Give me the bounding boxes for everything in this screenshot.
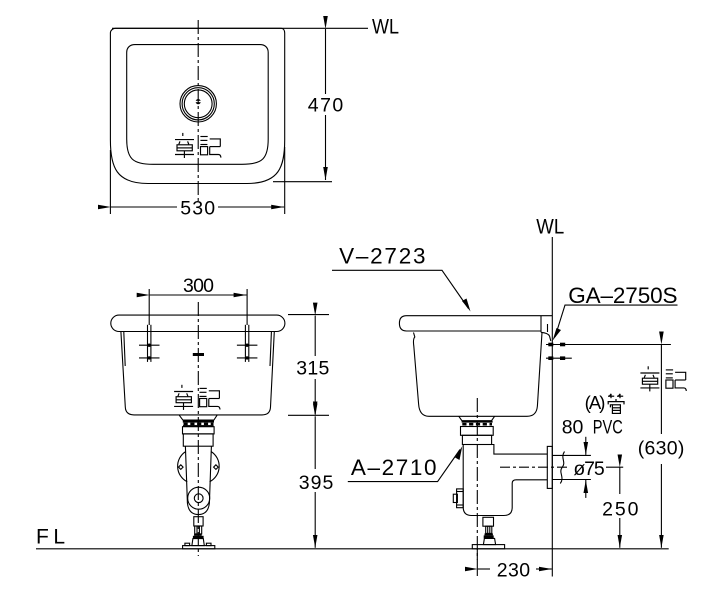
wall fastener top [548, 343, 565, 347]
svg-text:ø75: ø75 [573, 458, 604, 480]
svg-text:V–2723: V–2723 [339, 243, 425, 268]
trap wall-flange arcs (front) [178, 452, 188, 482]
drain circles (plan) [180, 86, 216, 122]
svg-text:470: 470 [308, 95, 344, 117]
front trap body [185, 446, 211, 514]
cleanout circle (front) [188, 487, 210, 509]
svg-text:A–2710: A–2710 [351, 455, 437, 480]
side strainer funnel [459, 416, 495, 420]
dimension 630 [660, 345, 662, 435]
basin inner wall lines (front) [124, 332, 125, 366]
pipe break squiggle [560, 452, 564, 484]
svg-text:250: 250 [602, 498, 639, 520]
wall line WL (side) [551, 237, 553, 549]
pipe centreline [500, 466, 570, 468]
front leg upper [194, 517, 203, 526]
front foot plate [183, 546, 215, 549]
svg-text:WL: WL [536, 216, 564, 239]
side tailpiece ring 1 [461, 427, 494, 436]
V-2723 leader [332, 270, 469, 308]
side foot plate [472, 545, 504, 549]
svg-text:230: 230 [497, 559, 531, 581]
svg-text:GA–2750S: GA–2750S [568, 283, 677, 308]
side rim [399, 316, 552, 331]
svg-text:WL: WL [372, 15, 399, 38]
front foot tabs [185, 543, 190, 545]
svg-text:FL: FL [36, 526, 65, 549]
front leg nuts [194, 534, 202, 536]
drain centre dot [196, 99, 201, 104]
svg-text:(A): (A) [585, 392, 606, 413]
dimension 315 extension lines [288, 314, 329, 316]
side cleanout plug [453, 489, 463, 508]
front body [121, 332, 274, 415]
svg-text:80PVC: 80PVC [562, 417, 623, 439]
dimension 315 [314, 316, 316, 356]
sink outer shell (plan) [110, 28, 284, 183]
water line WL (top) [112, 27, 368, 29]
dimension 300 [148, 289, 150, 325]
A-2710 leader [348, 450, 460, 482]
wall fastener bottom [546, 356, 572, 360]
dimension 230 [478, 568, 490, 570]
dimension 530 [111, 206, 177, 208]
dimension 470 [325, 29, 327, 94]
side leg rod [486, 526, 492, 533]
mounting bolt right [237, 325, 258, 362]
side centreline [476, 398, 478, 560]
front centreline [197, 302, 199, 556]
brand text 章記 (plan) [175, 133, 221, 158]
front strainer dark band [183, 420, 214, 423]
flange screw holes (diamonds) [179, 465, 184, 470]
front strainer funnel [179, 415, 217, 420]
side strainer dark band [462, 421, 493, 423]
side foot block [483, 538, 495, 544]
sink inner bowl rim (plan) [127, 45, 269, 165]
svg-text:300: 300 [183, 275, 214, 297]
side leg nuts [485, 533, 493, 535]
dimension 250 [619, 467, 621, 494]
front rim [111, 315, 285, 331]
GA-2750S leader [555, 305, 678, 337]
dimension 395 [314, 416, 316, 469]
side strainer dashed band [462, 423, 492, 426]
brand text 章記 (front) [174, 385, 220, 410]
front tailpiece nut [183, 427, 215, 434]
front lower dark band [183, 425, 214, 427]
dimension o75 extension lines [553, 454, 591, 456]
front locknut dashed band [184, 423, 214, 426]
wall flange (side) [547, 446, 552, 488]
side body [413, 333, 542, 417]
dimension 470 extension line (bottom) [273, 181, 332, 183]
dimension 530 extension lines [109, 150, 111, 214]
rim hook at wall [541, 332, 551, 341]
dimension 630 extension line [546, 344, 671, 346]
trap body with outlet (side) [463, 445, 547, 516]
dimension 230 extension lines [476, 549, 478, 576]
overflow mark (front centre) [193, 353, 204, 356]
svg-text:530: 530 [180, 197, 215, 219]
front leg rod [195, 526, 202, 534]
brand text 章記 (side) [640, 366, 686, 391]
side leg upper [483, 517, 494, 526]
floor line FL [36, 548, 669, 550]
svg-text:395: 395 [299, 472, 334, 494]
front tailpiece sleeve [183, 434, 213, 446]
mounting bolt left [139, 325, 160, 362]
svg-text:315: 315 [296, 358, 329, 380]
side tailpiece ring 2 [462, 435, 491, 444]
svg-text:(630): (630) [638, 437, 685, 459]
plan centreline [197, 20, 199, 204]
dimension o75 arrows [585, 437, 587, 455]
front foot block [192, 539, 204, 546]
